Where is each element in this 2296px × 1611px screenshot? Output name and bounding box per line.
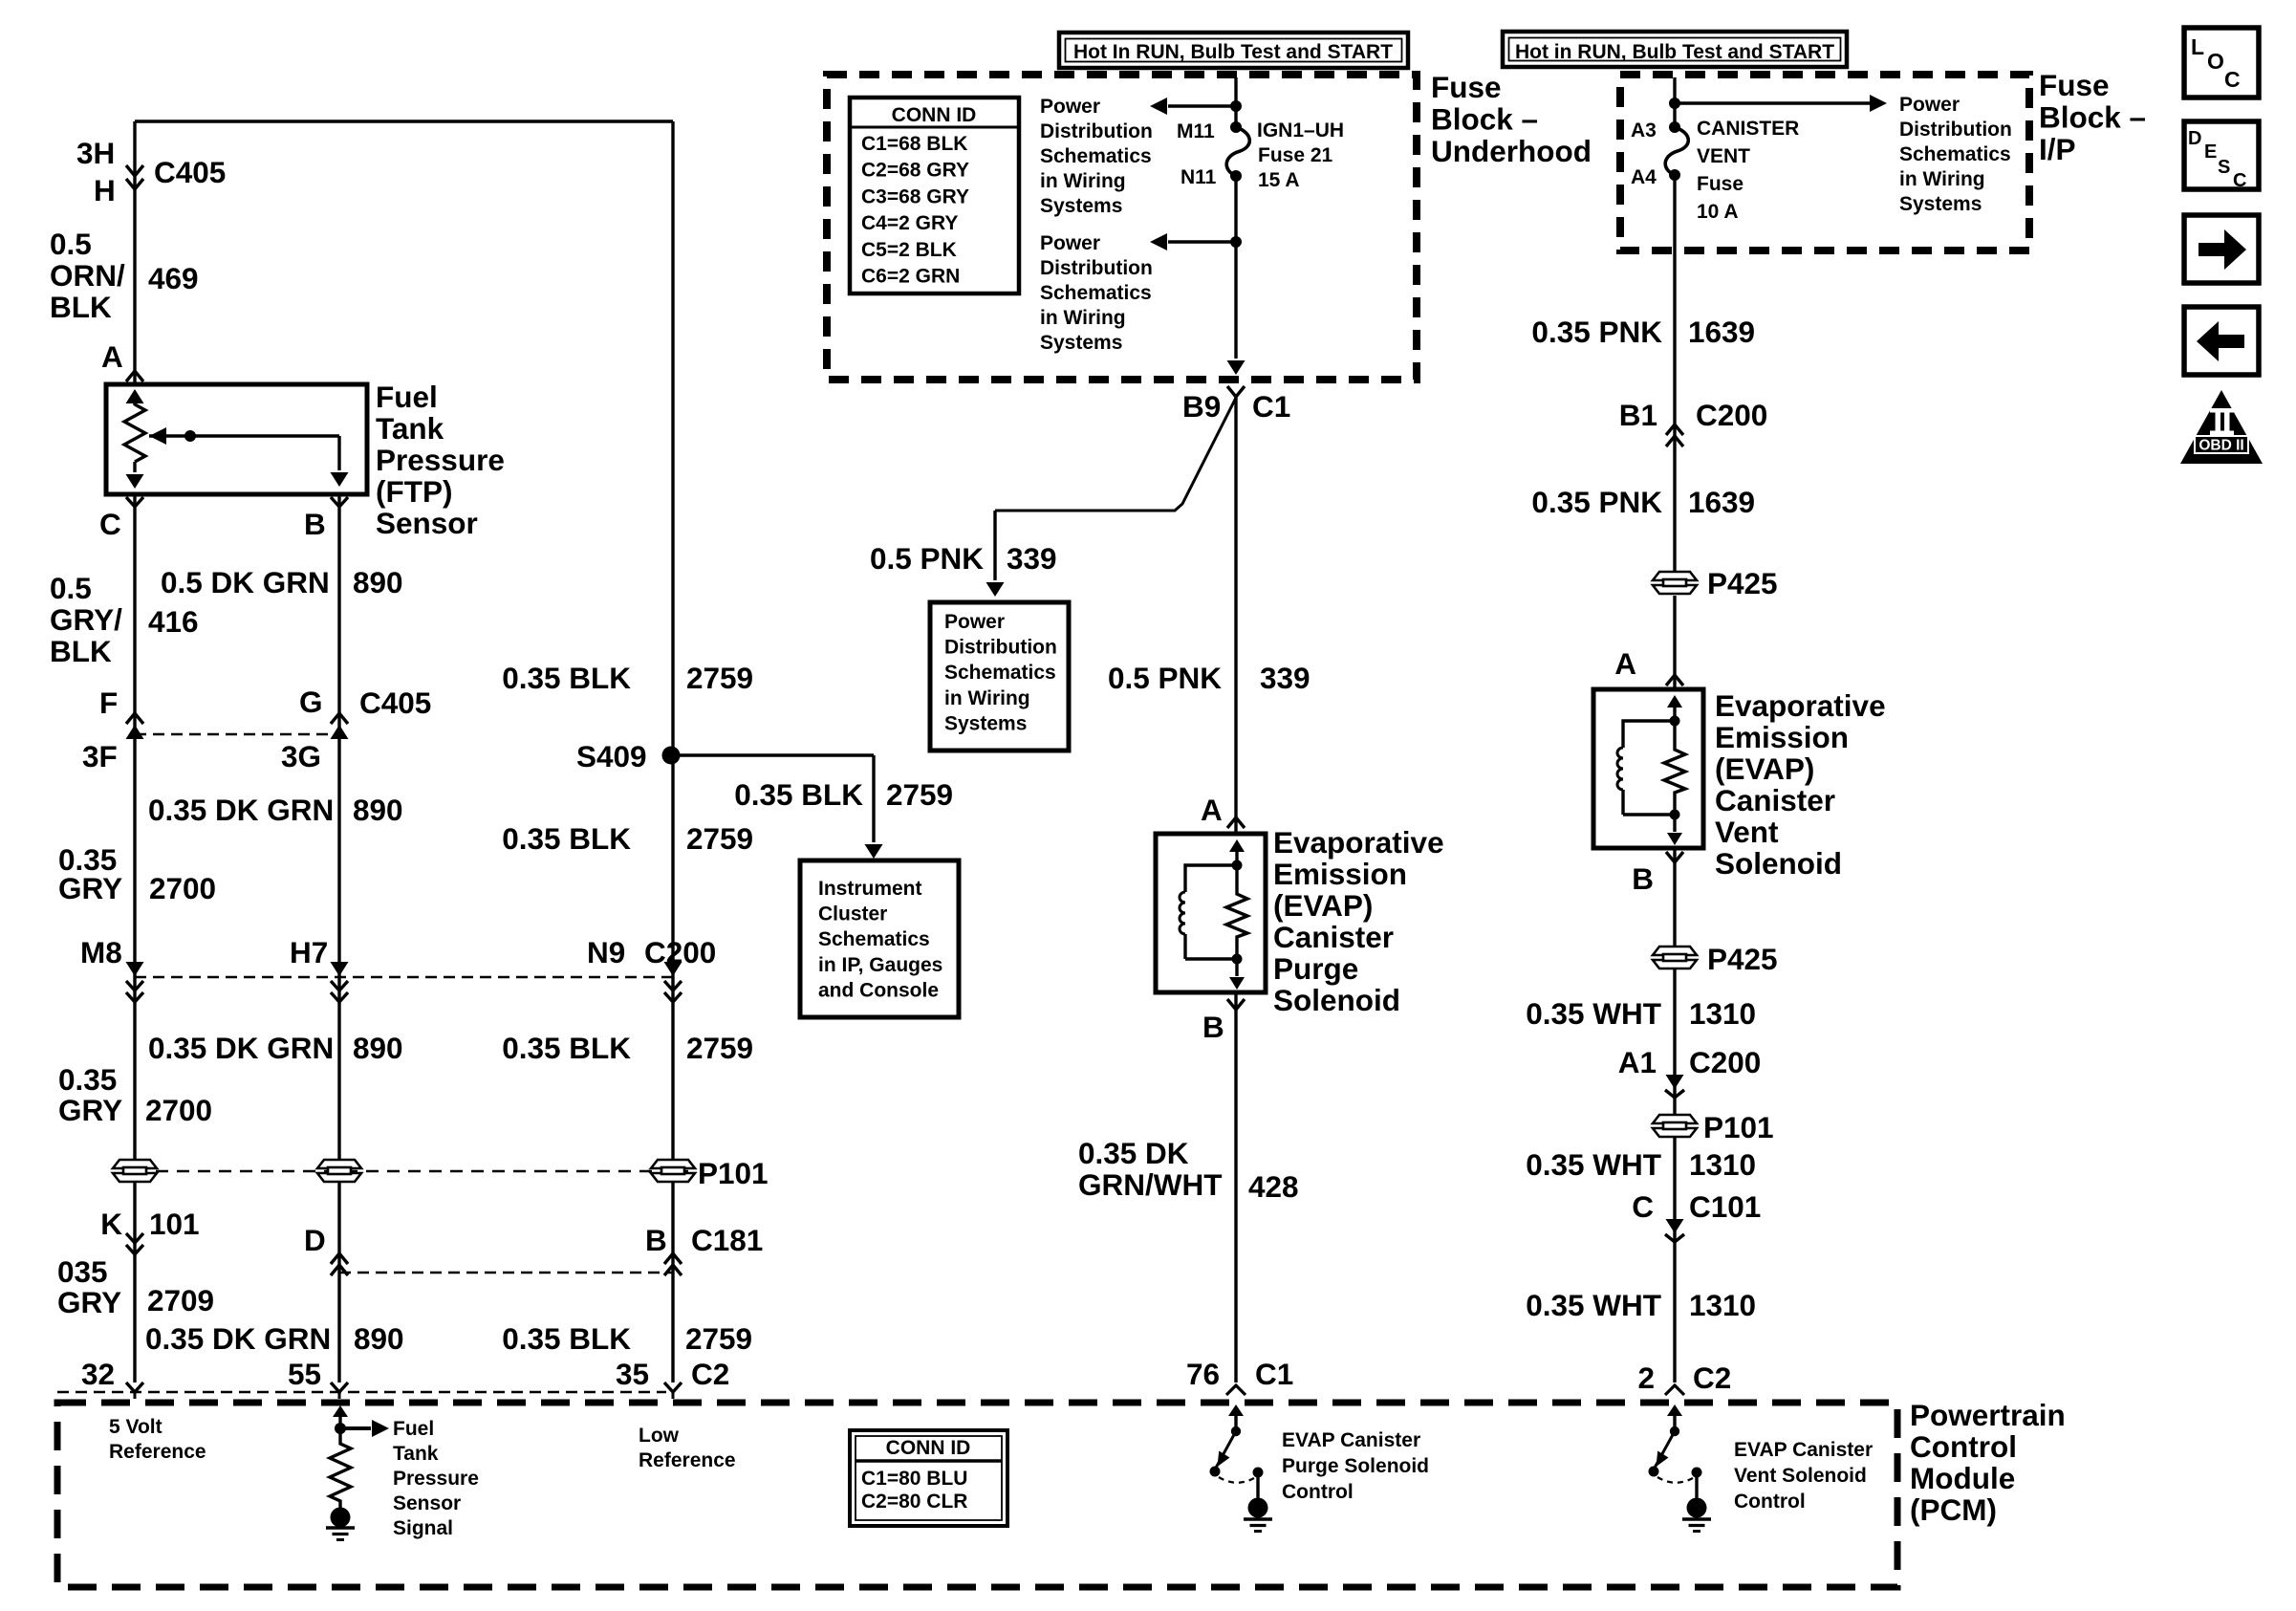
svg-text:(FTP): (FTP) [376, 474, 452, 509]
svg-text:CANISTER: CANISTER [1697, 118, 1799, 140]
svg-text:0.5: 0.5 [50, 571, 92, 605]
svg-text:C6=2 GRN: C6=2 GRN [861, 266, 960, 288]
svg-text:Emission: Emission [1273, 857, 1407, 891]
svg-text:Systems: Systems [944, 712, 1027, 734]
svg-text:416: 416 [148, 604, 199, 639]
svg-text:Block –: Block – [1431, 102, 1538, 137]
svg-text:Power: Power [944, 611, 1005, 633]
svg-text:Underhood: Underhood [1431, 134, 1592, 168]
svg-text:ORN/: ORN/ [50, 258, 125, 293]
svg-text:2: 2 [1637, 1361, 1655, 1395]
svg-text:A1: A1 [1618, 1045, 1657, 1079]
svg-text:Reference: Reference [109, 1441, 206, 1463]
svg-text:0.35 WHT: 0.35 WHT [1526, 996, 1661, 1031]
svg-text:GRY/: GRY/ [50, 602, 122, 637]
svg-text:1639: 1639 [1688, 315, 1755, 349]
svg-text:(EVAP): (EVAP) [1715, 751, 1814, 786]
svg-text:GRN/WHT: GRN/WHT [1078, 1167, 1222, 1202]
svg-text:Instrument: Instrument [818, 878, 922, 900]
svg-text:35: 35 [616, 1357, 649, 1391]
svg-text:C1: C1 [1255, 1357, 1293, 1391]
svg-text:890: 890 [353, 1031, 403, 1065]
svg-text:I/P: I/P [2039, 132, 2076, 166]
svg-text:Fuel: Fuel [393, 1418, 434, 1440]
svg-text:3F: 3F [82, 739, 118, 773]
svg-text:A4: A4 [1631, 166, 1657, 188]
svg-text:Canister: Canister [1715, 783, 1835, 817]
svg-text:2709: 2709 [147, 1283, 214, 1317]
svg-text:H7: H7 [290, 935, 328, 969]
svg-text:15 A: 15 A [1258, 169, 1300, 191]
svg-text:(EVAP): (EVAP) [1273, 888, 1373, 923]
svg-text:C4=2 GRY: C4=2 GRY [861, 212, 958, 234]
svg-text:D: D [2188, 128, 2201, 149]
svg-text:C: C [2224, 67, 2241, 92]
svg-text:3G: 3G [281, 739, 321, 773]
svg-text:Hot In RUN, Bulb Test and STAR: Hot In RUN, Bulb Test and START [1073, 41, 1393, 63]
svg-text:1310: 1310 [1689, 996, 1756, 1031]
svg-text:55: 55 [288, 1357, 321, 1391]
svg-text:Pressure: Pressure [376, 443, 505, 477]
svg-text:EVAP Canister: EVAP Canister [1734, 1439, 1873, 1461]
svg-text:Power: Power [1899, 94, 1960, 116]
svg-text:469: 469 [148, 261, 199, 295]
svg-text:C101: C101 [1689, 1189, 1761, 1224]
svg-text:F: F [99, 686, 118, 720]
svg-text:Sensor: Sensor [376, 506, 478, 540]
svg-text:0.35 BLK: 0.35 BLK [502, 821, 631, 856]
svg-text:H: H [94, 173, 116, 207]
svg-text:0.35 DK GRN: 0.35 DK GRN [148, 1031, 334, 1065]
svg-text:B9: B9 [1182, 389, 1221, 424]
svg-text:IGN1–UH: IGN1–UH [1257, 120, 1344, 142]
svg-text:GRY: GRY [58, 1093, 122, 1127]
svg-text:D: D [304, 1223, 326, 1257]
svg-text:2759: 2759 [685, 1321, 752, 1356]
svg-text:Solenoid: Solenoid [1273, 983, 1400, 1017]
svg-text:S: S [2218, 157, 2230, 178]
svg-text:Sensor: Sensor [393, 1492, 461, 1514]
svg-text:0.35 BLK: 0.35 BLK [502, 1031, 631, 1065]
svg-text:Systems: Systems [1040, 195, 1122, 217]
svg-text:0.35 BLK: 0.35 BLK [502, 1321, 631, 1356]
svg-text:A: A [101, 339, 123, 374]
svg-text:Systems: Systems [1040, 332, 1122, 354]
svg-text:Module: Module [1910, 1461, 2015, 1495]
svg-text:B: B [1202, 1010, 1224, 1044]
svg-text:Schematics: Schematics [1040, 145, 1152, 167]
svg-text:C: C [1632, 1189, 1654, 1224]
svg-text:0.35 BLK: 0.35 BLK [502, 661, 631, 695]
svg-text:890: 890 [353, 793, 403, 827]
svg-text:C1=68 BLK: C1=68 BLK [861, 133, 967, 155]
svg-text:C1=80 BLU: C1=80 BLU [861, 1468, 967, 1490]
svg-text:Pressure: Pressure [393, 1468, 479, 1490]
svg-text:Control: Control [1734, 1491, 1806, 1513]
svg-text:Cluster: Cluster [818, 903, 887, 925]
svg-text:2759: 2759 [686, 661, 753, 695]
svg-text:E: E [2204, 142, 2217, 163]
svg-text:C181: C181 [691, 1223, 763, 1257]
svg-text:BLK: BLK [50, 290, 112, 324]
svg-text:A3: A3 [1631, 120, 1657, 142]
svg-text:76: 76 [1186, 1357, 1220, 1391]
svg-text:Block –: Block – [2039, 100, 2146, 135]
svg-text:2700: 2700 [145, 1093, 212, 1127]
svg-text:C1: C1 [1252, 389, 1290, 424]
svg-text:G: G [299, 685, 323, 719]
svg-text:Distribution: Distribution [1040, 257, 1153, 279]
svg-text:Schematics: Schematics [818, 928, 930, 950]
svg-text:in Wiring: in Wiring [1040, 307, 1126, 329]
svg-text:Purge Solenoid: Purge Solenoid [1282, 1455, 1429, 1477]
svg-text:GRY: GRY [58, 871, 122, 905]
svg-text:0.35 WHT: 0.35 WHT [1526, 1147, 1661, 1182]
svg-text:1310: 1310 [1689, 1288, 1756, 1322]
svg-text:3H: 3H [76, 136, 115, 170]
svg-text:P425: P425 [1707, 566, 1778, 600]
svg-text:P101: P101 [698, 1156, 769, 1190]
svg-text:339: 339 [1007, 541, 1057, 576]
svg-text:32: 32 [81, 1357, 115, 1391]
svg-text:0.5 DK GRN: 0.5 DK GRN [161, 565, 330, 599]
svg-text:in IP, Gauges: in IP, Gauges [818, 954, 942, 976]
svg-text:Power: Power [1040, 96, 1100, 118]
svg-text:C: C [2233, 170, 2246, 191]
svg-text:101: 101 [149, 1207, 200, 1241]
svg-text:1310: 1310 [1689, 1147, 1756, 1182]
svg-text:C2: C2 [691, 1357, 729, 1391]
svg-text:CONN ID: CONN ID [892, 104, 977, 126]
svg-text:0.35: 0.35 [58, 1062, 117, 1097]
svg-text:EVAP Canister: EVAP Canister [1282, 1429, 1420, 1451]
svg-text:0.35 DK: 0.35 DK [1078, 1136, 1189, 1170]
svg-text:C3=68 GRY: C3=68 GRY [861, 185, 969, 207]
svg-text:Signal: Signal [393, 1517, 453, 1539]
svg-text:Distribution: Distribution [944, 637, 1057, 659]
svg-text:in Wiring: in Wiring [1899, 168, 1985, 190]
svg-text:A: A [1614, 646, 1636, 681]
svg-text:5 Volt: 5 Volt [109, 1416, 162, 1438]
svg-text:and Console: and Console [818, 979, 939, 1001]
svg-text:Vent Solenoid: Vent Solenoid [1734, 1465, 1867, 1487]
svg-text:Evaporative: Evaporative [1273, 825, 1444, 860]
svg-text:Power: Power [1040, 232, 1100, 254]
svg-text:C2=68 GRY: C2=68 GRY [861, 160, 969, 182]
svg-text:C200: C200 [1689, 1045, 1761, 1079]
svg-text:Distribution: Distribution [1899, 119, 2012, 141]
svg-text:O: O [2207, 49, 2224, 74]
svg-text:Schematics: Schematics [1040, 282, 1152, 304]
svg-text:A: A [1201, 793, 1223, 827]
svg-text:Emission: Emission [1715, 720, 1849, 754]
svg-text:C5=2 BLK: C5=2 BLK [861, 239, 957, 261]
svg-text:C: C [99, 507, 121, 541]
svg-text:Schematics: Schematics [1899, 143, 2011, 165]
svg-text:C2: C2 [1693, 1361, 1731, 1395]
svg-text:Vent: Vent [1715, 815, 1779, 849]
svg-text:2759: 2759 [686, 1031, 753, 1065]
svg-text:Evaporative: Evaporative [1715, 688, 1886, 723]
svg-text:K: K [100, 1207, 122, 1241]
svg-text:Fuse: Fuse [2039, 68, 2110, 102]
svg-text:Solenoid: Solenoid [1715, 846, 1842, 881]
svg-text:in Wiring: in Wiring [944, 687, 1030, 709]
svg-text:2759: 2759 [886, 777, 953, 812]
svg-text:B1: B1 [1619, 398, 1657, 432]
svg-text:2700: 2700 [149, 871, 216, 905]
svg-text:S409: S409 [576, 739, 647, 773]
svg-text:0.35 DK GRN: 0.35 DK GRN [145, 1321, 331, 1356]
svg-text:VENT: VENT [1697, 145, 1750, 167]
svg-text:0.5 PNK: 0.5 PNK [1108, 661, 1222, 695]
svg-text:Powertrain: Powertrain [1910, 1398, 2066, 1432]
svg-text:Systems: Systems [1899, 193, 1982, 215]
svg-text:035: 035 [57, 1254, 108, 1289]
svg-text:0.35 WHT: 0.35 WHT [1526, 1288, 1661, 1322]
svg-text:N9: N9 [587, 935, 625, 969]
svg-text:890: 890 [353, 565, 403, 599]
svg-text:0.35 DK GRN: 0.35 DK GRN [148, 793, 334, 827]
svg-text:B: B [1632, 861, 1654, 896]
svg-text:0.5: 0.5 [50, 227, 92, 261]
svg-text:Fuel: Fuel [376, 380, 438, 414]
svg-text:OBD II: OBD II [2199, 438, 2243, 454]
svg-text:Hot in RUN, Bulb Test and STAR: Hot in RUN, Bulb Test and START [1515, 41, 1834, 63]
svg-text:C405: C405 [359, 686, 431, 720]
svg-text:0.35 BLK: 0.35 BLK [734, 777, 863, 812]
svg-text:M11: M11 [1177, 120, 1215, 142]
svg-text:Canister: Canister [1273, 920, 1394, 954]
svg-text:N11: N11 [1180, 166, 1217, 188]
svg-text:Fuse: Fuse [1431, 70, 1502, 104]
svg-text:GRY: GRY [57, 1285, 121, 1319]
svg-text:Fuse 21: Fuse 21 [1258, 144, 1333, 166]
svg-text:Low: Low [639, 1425, 680, 1447]
svg-text:Reference: Reference [639, 1449, 736, 1471]
svg-text:C200: C200 [644, 935, 716, 969]
svg-text:P425: P425 [1707, 942, 1778, 976]
svg-text:Tank: Tank [376, 411, 444, 446]
svg-text:C2=80 CLR: C2=80 CLR [861, 1491, 967, 1513]
svg-text:L: L [2191, 34, 2204, 59]
svg-text:(PCM): (PCM) [1910, 1492, 1997, 1527]
svg-text:B: B [304, 507, 326, 541]
svg-text:Schematics: Schematics [944, 662, 1056, 684]
svg-text:Control: Control [1910, 1429, 2017, 1464]
svg-text:0.5 PNK: 0.5 PNK [870, 541, 984, 576]
svg-text:M8: M8 [80, 935, 122, 969]
svg-text:CONN ID: CONN ID [886, 1437, 971, 1459]
svg-text:0.35 PNK: 0.35 PNK [1531, 315, 1662, 349]
svg-text:890: 890 [354, 1321, 404, 1356]
svg-text:10 A: 10 A [1697, 201, 1739, 223]
svg-text:339: 339 [1260, 661, 1310, 695]
svg-text:in Wiring: in Wiring [1040, 170, 1126, 192]
svg-text:Purge: Purge [1273, 951, 1358, 986]
svg-text:Fuse: Fuse [1697, 173, 1744, 195]
svg-text:B: B [645, 1223, 667, 1257]
svg-text:Distribution: Distribution [1040, 120, 1153, 142]
svg-text:C200: C200 [1696, 398, 1767, 432]
svg-text:428: 428 [1248, 1169, 1299, 1204]
svg-text:0.35 PNK: 0.35 PNK [1531, 485, 1662, 519]
svg-text:Tank: Tank [393, 1443, 439, 1465]
svg-text:C405: C405 [154, 155, 226, 189]
svg-text:Control: Control [1282, 1481, 1354, 1503]
svg-text:2759: 2759 [686, 821, 753, 856]
svg-text:BLK: BLK [50, 634, 112, 668]
svg-text:P101: P101 [1703, 1110, 1774, 1144]
svg-text:1639: 1639 [1688, 485, 1755, 519]
